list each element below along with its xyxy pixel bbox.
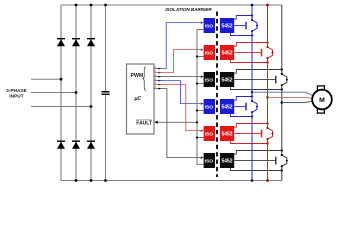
- node fault5: [196, 136, 198, 138]
- arrow PWM2 mid: [159, 72, 162, 74]
- svg-text:INPUT: INPUT: [9, 94, 23, 100]
- node phase A motor tap: [251, 91, 254, 94]
- svg-text:ISOLATION BARRIER: ISOLATION BARRIER: [165, 7, 212, 12]
- node leg3 top rail junction: [90, 4, 93, 7]
- motor M body: [312, 90, 332, 110]
- wire phase B vertical lower: [267, 139, 269, 180]
- arrow PWM1 mid: [159, 68, 162, 70]
- gate driver U1 ISO5452 phase A high: [204, 18, 235, 33]
- wire motor phase A: [252, 92, 312, 95]
- node fault4: [196, 109, 198, 111]
- wire 3-phase input line 2: [31, 92, 76, 94]
- svg-text:3-PHASE: 3-PHASE: [6, 88, 28, 94]
- svg-text:5452: 5452: [221, 78, 232, 84]
- node U1 com junction: [251, 34, 253, 36]
- transistor Q5 IGBT phase B low: [262, 128, 273, 139]
- svg-text:5452: 5452: [221, 132, 232, 138]
- wire phase A vertical middle: [251, 31, 253, 101]
- node phase B bottom rail junction: [266, 179, 269, 182]
- node leg2 bottom rail junction: [75, 179, 78, 182]
- svg-text:ISO: ISO: [205, 159, 214, 165]
- PWM group brace: [143, 67, 146, 91]
- arrow PWM2 into ISO2: [201, 48, 204, 50]
- wire PWM4 uC to ISO4: [154, 81, 200, 104]
- wire PWM2 uC to ISO2: [154, 50, 200, 73]
- transistor Q4 IGBT phase A low: [246, 101, 257, 112]
- wire U1 gate to Q1: [234, 25, 246, 27]
- node phase A bottom rail junction: [251, 179, 254, 182]
- motor M terminals: [317, 86, 324, 113]
- wire ISO1 fault stub: [197, 29, 204, 31]
- diode D1 top leg1: [57, 38, 65, 46]
- wire U5 com to Q5 emitter: [230, 141, 267, 144]
- arrow PWM3 into ISO3: [201, 75, 204, 77]
- wire U2 desat to Q2 collector: [234, 43, 267, 47]
- node fault2: [196, 55, 198, 57]
- svg-text:5452: 5452: [221, 105, 232, 111]
- svg-text:ISO: ISO: [205, 78, 214, 84]
- wire PWM5 uC to ISO5: [154, 85, 200, 131]
- wire phase B vertical middle: [267, 58, 269, 128]
- wire U5 gate to Q5: [234, 133, 261, 135]
- wire U5 desat to Q5 collector: [234, 124, 267, 128]
- wire phase C vertical upper: [281, 5, 283, 74]
- node phase B top rail junction: [266, 4, 269, 7]
- pin numbers 1-6: [155, 65, 157, 89]
- gate driver U5 ISO5452 phase B low: [204, 126, 235, 141]
- capacitor C1 plates: [102, 91, 110, 95]
- wire U1 com to Q1 emitter: [230, 33, 252, 36]
- wire DC- bottom rail: [61, 180, 282, 182]
- svg-text:5452: 5452: [221, 51, 232, 57]
- wire U6 desat to Q6 collector: [234, 151, 282, 155]
- node cap bottom junction: [104, 179, 107, 182]
- wire FAULT line to uC: [158, 121, 198, 123]
- wire U2 gate to Q2: [234, 52, 261, 54]
- node cap top junction: [104, 4, 107, 7]
- svg-text:ISO: ISO: [205, 24, 214, 30]
- node fault3: [196, 82, 198, 84]
- transistor Q1 IGBT phase A high: [246, 20, 257, 31]
- arrow PWM3 mid: [159, 76, 162, 78]
- svg-text:PWM: PWM: [131, 73, 144, 79]
- wire 3-phase input line 1: [31, 78, 61, 80]
- wire phase A vertical lower: [251, 112, 253, 180]
- gate driver U2 ISO5452 phase B high: [204, 45, 235, 60]
- svg-text:ISO: ISO: [205, 132, 214, 138]
- wire phase C vertical lower: [281, 166, 283, 180]
- arrow PWM6 into ISO6: [201, 156, 204, 158]
- wire DC+ top rail: [61, 4, 282, 6]
- wire PWM6 uC to ISO6: [154, 89, 200, 158]
- wire phase A vertical upper: [251, 5, 253, 20]
- arrow PWM5 into ISO5: [201, 129, 204, 131]
- wire U2 com to Q2 emitter: [230, 60, 267, 63]
- node U4 com junction: [251, 115, 253, 117]
- node phase B motor tap: [266, 96, 269, 99]
- wire rectifier leg 2: [75, 5, 77, 181]
- arrow PWM4 into ISO4: [201, 102, 204, 104]
- node leg2 top rail junction: [75, 4, 78, 7]
- diode D5 bottom leg2: [72, 141, 80, 149]
- wire U3 gate to Q3: [234, 79, 276, 81]
- node U1 desat junction: [251, 14, 253, 16]
- node U2 com junction: [266, 61, 268, 63]
- wire motor phase B: [268, 97, 313, 98]
- gate driver U6 ISO5452 phase C low: [204, 153, 235, 168]
- svg-text:ISO: ISO: [205, 51, 214, 57]
- svg-text:5452: 5452: [221, 24, 232, 30]
- node phase A top rail junction: [251, 4, 254, 7]
- svg-text:ISO: ISO: [205, 105, 214, 111]
- arrow FAULT into uC: [154, 121, 158, 124]
- svg-text:μC: μC: [134, 96, 142, 102]
- node U3 desat junction: [281, 68, 283, 70]
- svg-text:M: M: [319, 97, 325, 104]
- arrow PWM5 mid: [159, 84, 162, 86]
- arrow PWM6 mid: [159, 88, 162, 90]
- wire PWM3 uC to ISO3: [154, 76, 200, 78]
- wire U6 gate to Q6: [234, 160, 276, 162]
- wire motor phase C: [282, 101, 313, 103]
- node phase C motor tap: [281, 101, 284, 104]
- wire ISO5 fault stub: [197, 137, 204, 139]
- wire U4 gate to Q4: [234, 106, 246, 108]
- gate driver U3 ISO5452 phase C high: [204, 72, 235, 87]
- wire ISO2 fault stub: [197, 56, 204, 58]
- wire U3 com to Q3 emitter: [230, 87, 281, 90]
- wire rectifier leg 1: [60, 5, 62, 181]
- node U5 desat junction: [266, 122, 268, 124]
- diode D4 bottom leg1: [57, 141, 65, 149]
- wire rectifier leg 3: [90, 5, 92, 181]
- wire ISO3 fault stub: [197, 83, 204, 85]
- wire U4 desat to Q4 collector: [234, 97, 252, 101]
- wire phase B vertical upper: [267, 5, 269, 47]
- diode D6 bottom leg3: [87, 141, 95, 149]
- wire 3-phase input line 3: [31, 106, 91, 108]
- node U5 com junction: [266, 142, 268, 144]
- svg-text:FAULT: FAULT: [136, 121, 152, 127]
- node input3 junction: [90, 105, 93, 108]
- transistor Q3 IGBT phase C high: [276, 74, 287, 85]
- node fault bus to fault line: [196, 121, 198, 123]
- diode D2 top leg2: [72, 38, 80, 46]
- transistor Q6 IGBT phase C low: [276, 155, 287, 166]
- microcontroller U7 box: [127, 64, 155, 134]
- arrow PWM4 mid: [159, 80, 162, 82]
- transistor Q2 IGBT phase B high: [262, 47, 273, 58]
- FAULT overline: [137, 118, 152, 120]
- wire phase C vertical middle: [281, 85, 283, 155]
- node leg3 bottom rail junction: [90, 179, 93, 182]
- node U6 com junction: [281, 169, 283, 171]
- gate driver U4 ISO5452 phase A low: [204, 99, 235, 114]
- wire U6 com to Q6 emitter: [230, 168, 281, 171]
- svg-text:5452: 5452: [221, 159, 232, 165]
- node U6 desat junction: [281, 149, 283, 151]
- node U4 desat junction: [251, 95, 253, 97]
- node input1 junction: [60, 78, 63, 81]
- node U2 desat junction: [266, 41, 268, 43]
- label 3-PHASE INPUT: [6, 88, 28, 100]
- diode D3 top leg3: [87, 38, 95, 46]
- wire U3 desat to Q3 collector: [234, 70, 282, 74]
- wire ISO4 fault stub: [197, 110, 204, 112]
- capacitor C1 dc link wire bottom: [105, 95, 107, 181]
- isolation barrier dashed line: [216, 12, 218, 178]
- wire PWM1 uC to ISO1: [154, 23, 200, 69]
- node U3 com junction: [281, 88, 283, 90]
- wire U1 desat to Q1 collector: [234, 16, 252, 20]
- node input2 junction: [75, 91, 78, 94]
- wire U4 com to Q4 emitter: [230, 114, 252, 117]
- arrow PWM1 into ISO1: [201, 21, 204, 23]
- capacitor C1 dc link wire top: [105, 5, 107, 91]
- wire FAULT bus vertical: [197, 30, 204, 165]
